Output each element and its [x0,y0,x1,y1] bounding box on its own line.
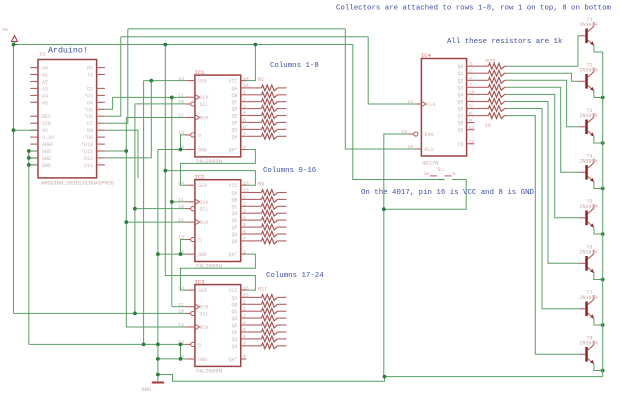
U1 right pins [81,66,105,169]
pin GND stub (U1 left) [30,164,38,166]
pin GND stub (U1 left) [30,157,38,159]
svg-text:2: 2 [469,69,472,75]
svg-text:RCK: RCK [200,325,209,331]
svg-text:RCK: RCK [200,116,209,122]
svg-text:IC3: IC3 [195,278,205,285]
pin 5 QF (IC2) [231,222,246,231]
svg-text:Q6: Q6 [457,107,463,113]
wire emitter rail [602,52,604,377]
svg-text:R9: R9 [258,182,264,188]
pin 4 QE (IC1) [231,111,246,120]
svg-text:Q5: Q5 [457,100,463,106]
svg-text:1: 1 [243,195,246,201]
junction SCL bus +5V row [133,312,137,316]
svg-text:IC1: IC1 [195,69,206,76]
svg-text:CLK: CLK [427,102,436,108]
junction T5 emitter on rail [601,232,605,236]
svg-text:R17: R17 [258,286,267,292]
junction U1 GND pin3 [27,163,31,167]
svg-text:5: 5 [469,104,472,110]
wire +5V to IC2 VCC [165,171,255,186]
svg-text:7: 7 [243,236,246,242]
pin D4 stub (U1 right) [97,101,105,103]
pin A5 stub (U1 left) [30,101,38,103]
pin 4 QE (IC2) [231,215,246,224]
wire 4017 vcc drop [353,45,445,180]
wire mystery gnd vertical [143,81,145,345]
svg-text:1: 1 [243,300,246,306]
wire RCK row IC2 [126,221,185,223]
svg-text:7: 7 [243,341,246,347]
pin 12 RCK (IC1) [178,113,208,122]
wire D6 to 4017 clock top [121,36,368,38]
pin *D10 stub (U1 right) [97,143,105,145]
pin 12 CO (IC4) [457,139,474,148]
pin 3.3V stub (U1 left) [30,136,38,138]
pin *D6 stub (U1 right) [97,115,105,117]
pin 1 QB (IC2) [231,195,246,204]
svg-text:QC: QC [231,100,237,106]
svg-text:2N3904: 2N3904 [580,341,598,347]
wire R30 to T6 base [507,102,579,264]
svg-text:D12: D12 [84,156,93,162]
pin 16 VCC (IC1) [228,76,248,85]
pin 5 QF (IC3) [231,327,246,336]
pin TX stub (U1 right) [97,74,105,76]
svg-text:6: 6 [243,334,246,340]
shift register IC3 box [195,285,241,367]
transistor T8 2N3904 [579,335,598,364]
svg-text:6: 6 [469,111,472,117]
junction SCL bus IC2 row [133,207,137,211]
ground symbol GND [142,383,164,393]
junction G IC2 at GND row [179,252,183,256]
wire SER row IC1 [144,80,186,82]
resistor R31 [474,106,507,112]
pin 7 QH (IC3) [231,341,246,350]
resistor R19 [246,308,286,314]
svg-text:QF: QF [231,120,237,126]
wire D8 row [105,130,138,178]
power +5V supply symbol [1,29,18,45]
pin 1 Q5 (IC4) [457,97,474,106]
wire R28 to T4 base [507,87,579,172]
wire G IC1 tie [181,135,186,150]
wire T3 emitter to rail [594,136,603,143]
transistor T7 2N3904 [579,290,598,319]
pin 1 QB (IC1) [231,90,246,99]
pin 8 GND (IC3) [181,354,207,363]
pin 9 QH* (IC3) [228,354,246,363]
wire SCK row IC2 [172,201,186,203]
svg-text:D13: D13 [84,163,93,169]
junction T6 emitter on rail [601,278,605,282]
svg-text:5V: 5V [42,128,48,134]
pin 7 Q3 (IC4) [457,83,474,92]
svg-text:A1: A1 [42,73,48,79]
pin A3 stub (U1 left) [30,87,38,89]
svg-text:IC2: IC2 [195,173,205,180]
pin 5V stub (U1 left) [30,129,38,131]
resistor R17 [246,295,286,301]
wire GND row to IC3 G [29,343,186,345]
wire 4017 reset drop [345,29,414,149]
svg-text:AREF: AREF [42,142,54,148]
svg-text:7: 7 [243,132,246,138]
svg-text:VCC: VCC [228,79,237,85]
pin D12 stub (U1 right) [97,157,105,159]
pin *D5 stub (U1 right) [97,108,105,110]
svg-text:QG: QG [231,127,237,133]
pin 6 QG (IC2) [231,229,246,238]
wire RCK row IC3 [126,326,185,328]
wire T6 emitter to rail [594,273,603,280]
svg-text:SER: SER [198,183,207,189]
junction T8 emitter on rail [601,369,605,373]
wire R29 to T5 base [507,94,579,217]
svg-text:Q0: Q0 [457,64,463,70]
pin 2 QC (IC3) [231,306,246,315]
svg-text:Q4: Q4 [457,92,463,98]
svg-text:5: 5 [243,222,246,228]
wire D7 to 4017 reset top [128,28,345,30]
svg-text:A2: A2 [42,80,48,86]
resistor R26 [474,70,507,76]
svg-text:Q8: Q8 [457,121,463,127]
pin 6 QG (IC3) [231,334,246,343]
svg-text:6: 6 [243,125,246,131]
resistor R10 [246,197,286,203]
wire +5V to IC3 VCC [165,276,255,291]
resistor R18 [246,301,286,307]
wire R25 to T1 base [507,36,579,66]
svg-text:All these resistors are 1k: All these resistors are 1k [447,38,563,46]
wire T4 emitter to rail [594,182,603,189]
resistor R21 [246,322,286,328]
svg-text:9: 9 [469,118,472,124]
transistor T3 2N3904 [579,108,598,137]
svg-text:2N3904: 2N3904 [580,68,598,74]
junction T4 emitter on rail [601,187,605,191]
wire G IC3 tie [180,344,182,359]
svg-text:2: 2 [243,202,246,208]
svg-text:RCK: RCK [200,220,209,226]
pin D8 stub (U1 right) [97,129,105,131]
svg-text:*D10: *D10 [81,142,93,148]
pin RES stub (U1 left) [30,115,38,117]
pin A0 stub (U1 left) [30,67,38,69]
svg-text:5: 5 [243,327,246,333]
junction mystery at GND line [142,343,146,347]
resistor R1 [246,85,286,91]
pin 7 QH (IC2) [231,236,246,245]
pin 13 INH (IC4) [401,129,433,138]
pin 15 QA (IC1) [231,83,248,92]
wire SCK row IC3 [172,306,186,308]
pin *D9 stub (U1 right) [97,136,105,138]
resistor R2 [246,92,286,98]
wire GND row IC2 [158,253,186,255]
svg-text:2N3904: 2N3904 [580,159,598,165]
pin GND stub (U1 left) [30,150,38,152]
junction U1 GND pin1 [27,149,31,153]
svg-text:QB: QB [231,302,237,308]
pin 14 SER (IC1) [178,76,207,85]
junction T3 emitter on rail [601,141,605,145]
svg-text:QC: QC [231,204,237,210]
resistor R7 [246,127,286,133]
resistor R29 [474,92,507,98]
pin 16 VCC power stub (IC4) [423,169,444,177]
pin *D11 stub (U1 right) [97,150,105,152]
svg-text:Arduino!: Arduino! [48,46,88,56]
junction +5V at IC2 chain [163,43,167,47]
pin 13 G (IC2) [178,235,201,244]
svg-text:QH*: QH* [228,252,237,258]
resistor R15 [246,231,286,237]
svg-text:G: G [198,133,201,139]
svg-text:QA: QA [231,295,237,301]
svg-text:QE: QE [231,323,237,329]
svg-text:9: 9 [243,145,246,151]
pin A4 stub (U1 left) [30,94,38,96]
junction INH loop [382,207,386,211]
wire SCL row IC2 [135,208,186,210]
svg-text:2: 2 [243,306,246,312]
wire D11 row to RCK bus [105,150,126,152]
shift register IC2 box [195,180,241,262]
wire R27 to T3 base [507,80,579,127]
svg-text:5: 5 [243,118,246,124]
svg-text:GND: GND [142,387,152,393]
pin 2 QC (IC1) [231,97,246,106]
svg-text:Ehm: Ehm [425,132,434,138]
svg-text:SER: SER [198,79,207,85]
wire T8 emitter to rail [594,364,603,371]
pin 2 Q1 (IC4) [457,69,474,78]
wire R31 to T7 base [507,109,579,309]
resistor R30 [474,99,507,105]
pin D7 stub (U1 right) [97,122,105,124]
svg-text:2N3904: 2N3904 [580,204,598,210]
svg-text:8: 8 [453,171,456,177]
svg-text:Q3: Q3 [457,85,463,91]
pin 10 SCL (IC3) [178,309,208,318]
svg-text:G: G [198,342,201,348]
wire D6 row [105,37,121,117]
pin 9 Q8 (IC4) [457,118,474,127]
svg-text:GND: GND [42,149,51,155]
svg-text:*D11: *D11 [81,149,93,155]
svg-text:SCL: SCL [200,207,209,213]
wire RCK bus vertical [125,118,127,328]
svg-text:1k: 1k [485,123,491,129]
svg-text:D8: D8 [87,128,93,134]
svg-text:CO: CO [457,142,463,148]
pin 10 SCL (IC1) [178,99,208,108]
pin 2 QC (IC2) [231,202,246,211]
svg-text:GND: GND [198,252,207,258]
svg-text:QC: QC [231,309,237,315]
resistor R11 [246,203,286,209]
svg-text:A0: A0 [42,66,48,72]
pin 10 SCL (IC2) [178,204,208,213]
svg-text:3.3V: 3.3V [42,135,54,141]
junction T7 emitter on rail [601,323,605,327]
pin 15 RLS (IC4) [407,144,433,153]
wire +5V chain vertical [164,45,166,276]
junction RCK bus D11 feed [124,149,128,153]
transistor T5 2N3904 [579,199,598,228]
pin 6 QG (IC1) [231,125,246,134]
svg-text:IC4: IC4 [421,52,432,59]
svg-text:74LS595N: 74LS595N [196,367,222,374]
pin VIN stub (U1 left) [30,122,38,124]
pin RX stub (U1 right) [97,67,105,69]
svg-text:QD: QD [231,211,237,217]
junction SCK row [170,96,174,100]
resistor R14 [246,224,286,230]
transistor T1 2N3904 [579,17,598,46]
pin A2 stub (U1 left) [30,81,38,83]
svg-text:4: 4 [243,215,246,221]
pin 12 RCK (IC3) [178,322,208,331]
svg-text:4: 4 [243,111,246,117]
svg-text:GND: GND [42,163,51,169]
svg-text:QB: QB [231,197,237,203]
wire GND rail vertical [157,150,159,383]
wire RCK row IC1 [126,117,185,119]
svg-text:Q1: Q1 [457,71,463,77]
svg-text:U1: U1 [40,52,46,58]
svg-text:3: 3 [469,61,472,67]
pin 8 GND (IC2) [181,249,207,258]
resistor R27 [474,77,507,83]
shift register IC1 box [195,75,241,157]
pin 9 QH* (IC1) [228,145,246,154]
wire U1 GND pin1 [29,150,38,152]
junction G IC3 at GND row [179,357,183,361]
pin A1 stub (U1 left) [30,74,38,76]
svg-text:D4: D4 [87,100,93,106]
svg-text:QA: QA [231,86,237,92]
svg-text:A3: A3 [42,86,48,92]
junction SER row [149,79,153,83]
resistor R25 [474,63,507,69]
wire QH* IC2 to SER IC3 [181,254,256,290]
wire G IC2 tie [181,240,186,255]
junction rail GND line [156,343,160,347]
pin 6 Q7 (IC4) [457,111,474,120]
junction +5V at U1 5V pin [12,128,16,132]
pin 4 Q2 (IC4) [457,76,474,85]
svg-text:QH*: QH* [228,148,237,154]
svg-text:3: 3 [243,104,246,110]
svg-text:16: 16 [423,171,429,177]
pin 13 G (IC1) [178,130,201,139]
junction +5V chain IC2 feed [163,169,167,173]
svg-text:RLS: RLS [425,147,434,153]
pin 11 SCK (IC2) [178,197,208,206]
resistor R13 [246,217,286,223]
svg-text:7: 7 [469,83,472,89]
svg-text:QE: QE [231,114,237,120]
pin 15 QA (IC2) [231,188,248,197]
module U1 Arduino shield box [38,60,97,178]
resistor R24 [246,343,286,349]
resistor R20 [246,315,286,321]
pin 16 VCC (IC2) [228,180,248,189]
resistor R5 [246,113,286,119]
svg-text:QB: QB [231,93,237,99]
junction RCK bus IC2 row [124,220,128,224]
pin 4 QE (IC3) [231,320,246,329]
svg-text:VCC: VCC [228,183,237,189]
svg-text:6: 6 [243,229,246,235]
svg-text:QF: QF [231,225,237,231]
wire SCL bus vertical [134,104,136,314]
wire bottom gnd left [158,375,603,382]
junction SCK bus IC2 row [170,200,174,204]
svg-text:4: 4 [469,76,472,82]
resistor R28 [474,84,507,90]
wire R26 to T2 base [507,73,579,81]
wire +5V drop to IC1 VCC [246,45,255,81]
pin 8 GND power stub (IC4) [439,171,456,183]
wire T1 emitter to rail [594,45,603,52]
svg-text:Q2: Q2 [457,78,463,84]
pin AREF stub (U1 left) [30,143,38,145]
svg-text:+5V: +5V [1,29,9,33]
svg-text:D7: D7 [87,121,93,127]
pin 1 QB (IC3) [231,300,246,309]
wire +5V to U1 5V pin [14,129,39,131]
pin 9 QH* (IC2) [228,249,246,258]
pin 5 Q6 (IC4) [457,104,474,113]
pin 13 G (IC3) [178,340,201,349]
junction rail bottom [156,373,160,377]
pin 16 VCC (IC3) [228,285,248,294]
pin D13 stub (U1 right) [97,164,105,166]
resistor R8 [246,133,286,139]
resistor R9 [246,190,286,196]
svg-text:4017N: 4017N [422,160,439,167]
svg-text:4: 4 [243,320,246,326]
wire +5V vertical left [13,45,15,314]
svg-text:2N3904: 2N3904 [580,22,598,28]
svg-text:Columns 9-16: Columns 9-16 [263,167,316,175]
resistor R22 [246,329,286,335]
wire GND row IC1 [158,149,186,151]
wire U1 GND pin2 [29,157,38,159]
transistor T2 2N3904 [579,62,598,91]
svg-text:QH*: QH* [228,357,237,363]
wire +5V top rail [14,44,353,46]
resistor R12 [246,210,286,216]
svg-text:QD: QD [231,107,237,113]
svg-text:Collectors are attached to row: Collectors are attached to rows 1-8, row… [336,5,612,13]
svg-text:ARDUINO_SHIELDLDUASPM26: ARDUINO_SHIELDLDUASPM26 [41,181,114,187]
svg-text:*D3: *D3 [84,93,93,99]
svg-text:VIN: VIN [42,121,51,127]
pin 11 SCK (IC3) [178,302,208,311]
wire R32 to T8 base [507,116,579,355]
svg-text:QF: QF [231,330,237,336]
junction INH at bottom wire [383,375,387,379]
svg-text:A4: A4 [42,93,48,99]
svg-text:VCC: VCC [228,288,237,294]
pin 12 RCK (IC2) [178,217,208,226]
